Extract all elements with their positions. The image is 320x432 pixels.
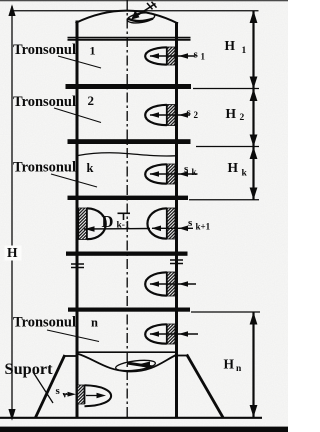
- nozzle (right, unlabeled, omitted sections): [145, 272, 196, 296]
- svg-text:Tronsonul: Tronsonul: [13, 42, 76, 58]
- dimension line H1: [252, 11, 254, 89]
- svg-text:s: s: [56, 385, 61, 397]
- svg-text:D: D: [102, 212, 114, 231]
- svg-text:Tronsonul: Tronsonul: [13, 94, 76, 110]
- top slanted arrow shaft: [134, 4, 156, 18]
- extension line H2/Hk boundary: [196, 146, 259, 148]
- svg-text:Suport: Suport: [5, 361, 54, 378]
- svg-text:k: k: [87, 161, 94, 175]
- bottom nozzle dark arrow: [127, 363, 152, 367]
- svg-text:H: H: [225, 38, 236, 53]
- bottom head tangent line: [78, 351, 176, 353]
- svg-text:k-1: k-1: [117, 221, 130, 231]
- bottom dished head: [77, 354, 177, 372]
- skirt support right: [176, 355, 187, 357]
- svg-text:s: s: [184, 163, 189, 175]
- extension line top (from H line over dome apex to H1 line): [12, 10, 259, 12]
- svg-text:n: n: [236, 364, 242, 374]
- nozzle Sk+1 (right): [147, 208, 193, 239]
- top arrowhead: [131, 10, 139, 19]
- extension line H1/H2 boundary: [193, 88, 259, 90]
- svg-text:Tronsonul: Tronsonul: [13, 160, 76, 176]
- ground line: [0, 417, 262, 419]
- dimension line Hk: [252, 147, 254, 200]
- break ticks right wall: [170, 259, 183, 261]
- svg-text:k: k: [242, 169, 248, 179]
- svg-text:2: 2: [240, 113, 245, 123]
- svg-text:Tronsonul: Tronsonul: [13, 315, 76, 331]
- border bottom bar: [0, 427, 288, 432]
- dimension line Hn: [252, 312, 254, 417]
- extension line Hn top: [191, 311, 260, 313]
- svg-text:k: k: [192, 167, 197, 177]
- flange F4: [68, 196, 189, 200]
- svg-text:1: 1: [242, 46, 247, 56]
- nozzle Sk (right, section k): [145, 164, 197, 184]
- svg-text:2: 2: [194, 110, 199, 120]
- dimension H vertical line (left): [11, 6, 13, 416]
- nozzle S1 (right, section 1): [145, 47, 195, 65]
- svg-text:2: 2: [88, 93, 95, 108]
- top nozzle thick lower arc: [128, 18, 153, 21]
- column centerline: [126, 0, 128, 417]
- flange F3: [68, 139, 191, 144]
- top head nozzle ellipse: [127, 11, 156, 24]
- dimension line H2: [252, 89, 254, 147]
- flange F6: [68, 308, 190, 312]
- svg-text:1: 1: [90, 44, 96, 58]
- manhole D k-1 (left wall): [79, 208, 150, 240]
- skirt support left: [65, 355, 78, 357]
- tray wavy line in section k: [78, 153, 175, 156]
- nozzle S2 (right, section 2): [145, 105, 190, 126]
- break ticks left wall: [71, 263, 84, 265]
- svg-text:1: 1: [201, 52, 206, 62]
- svg-text:s: s: [188, 217, 193, 229]
- arrow H top: [8, 4, 15, 16]
- svg-text:H: H: [228, 160, 239, 175]
- arrow H bottom: [8, 409, 15, 421]
- svg-text:H: H: [226, 106, 237, 121]
- nozzle (right, section n): [145, 324, 198, 344]
- svg-text:s: s: [194, 49, 199, 61]
- svg-text:H: H: [7, 245, 18, 260]
- arrow fletching: [147, 3, 153, 9]
- bottom head nozzle ellipse: [115, 358, 156, 372]
- svg-text:k+1: k+1: [196, 222, 211, 232]
- flange F2: [66, 84, 192, 89]
- shell left wall: [76, 21, 79, 418]
- svg-text:s: s: [187, 107, 192, 119]
- nozzle Sv (left, bottom): [78, 385, 112, 406]
- flange F5: [66, 252, 188, 256]
- shell right wall: [175, 22, 178, 418]
- svg-text:n: n: [91, 316, 98, 330]
- svg-text:H: H: [224, 357, 235, 372]
- flange F1: [68, 37, 191, 39]
- top dome head: [76, 11, 179, 24]
- label H (left overall height): [5, 246, 22, 261]
- border top edge: [0, 0, 288, 2]
- extension line Hk bottom: [189, 199, 259, 201]
